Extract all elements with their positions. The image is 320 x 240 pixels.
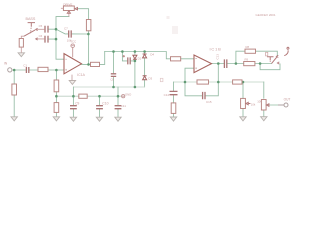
svg-text:R9: R9 (245, 57, 249, 61)
svg-text:IN: IN (4, 61, 8, 65)
svg-text:IC1B: IC1B (210, 47, 222, 52)
svg-text:C5: C5 (39, 24, 43, 28)
svg-text:D4: D4 (150, 52, 154, 56)
svg-text:C14: C14 (164, 93, 170, 97)
svg-text:C7: C7 (64, 27, 68, 31)
svg-text:C11: C11 (121, 104, 127, 108)
svg-text:VCC: VCC (70, 39, 76, 43)
svg-text:C1: C1 (23, 63, 27, 67)
svg-text:BASS: BASS (26, 17, 36, 21)
svg-text:C9: C9 (75, 102, 79, 106)
svg-text:C8: C8 (110, 77, 114, 81)
svg-text:DRIVE: DRIVE (63, 2, 72, 6)
svg-text:10k: 10k (251, 103, 256, 107)
svg-text:GEOFEX 2001: GEOFEX 2001 (256, 13, 276, 17)
svg-text:GND: GND (125, 92, 131, 96)
svg-text:C6: C6 (39, 34, 43, 38)
svg-text:IC1A: IC1A (77, 73, 85, 77)
svg-text:D3: D3 (148, 77, 152, 81)
svg-text:C13: C13 (215, 54, 219, 60)
svg-text:D1: D1 (138, 56, 142, 60)
svg-text:C15: C15 (206, 100, 212, 104)
svg-text:R8: R8 (246, 45, 250, 49)
svg-text:C10: C10 (102, 101, 108, 105)
svg-text:OUT: OUT (284, 98, 291, 102)
svg-text:10k: 10k (257, 100, 262, 104)
